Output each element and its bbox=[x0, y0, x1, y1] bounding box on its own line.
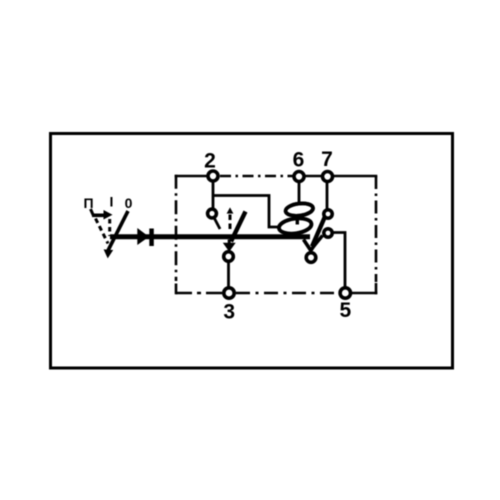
svg-text:3: 3 bbox=[223, 301, 235, 324]
svg-text:7: 7 bbox=[321, 148, 333, 171]
svg-text:I: I bbox=[110, 194, 114, 210]
svg-text:5: 5 bbox=[339, 299, 351, 322]
svg-text:6: 6 bbox=[293, 149, 305, 172]
svg-text:2: 2 bbox=[204, 150, 216, 173]
svg-text:П: П bbox=[83, 195, 93, 211]
svg-text:0: 0 bbox=[125, 195, 133, 211]
